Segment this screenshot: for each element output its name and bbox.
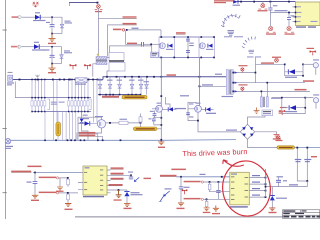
ground: [32, 195, 38, 198]
box loop: [188, 102, 198, 120]
wire: [270, 12, 295, 14]
resistor: [119, 121, 128, 124]
net label red: [176, 32, 186, 34]
testpoint red tap3: [241, 87, 244, 91]
capacitor array columns: [31, 97, 89, 112]
wire: [22, 16, 35, 18]
vcc T symbol: [70, 64, 77, 69]
ground: [178, 203, 184, 206]
T1 tap wires: [233, 72, 255, 74]
wire: [255, 58, 257, 83]
transformer T2: [260, 97, 262, 107]
border tick: [3, 192, 7, 194]
testpoint red tap1: [241, 68, 244, 73]
diode: [169, 107, 173, 111]
wire: [40, 47, 62, 55]
wire: [41, 17, 63, 24]
drive mosfet Q2: [195, 105, 202, 112]
vcc T red top: [310, 51, 316, 56]
testpoint TP3: [285, 27, 294, 33]
vcc T red: [182, 190, 188, 195]
wire: [33, 172, 78, 174]
wire: [107, 71, 109, 77]
red label top: [214, 0, 233, 1]
ground: [213, 206, 219, 212]
SCR1 loop: [159, 37, 174, 57]
spark gap FS1 (red): [95, 5, 103, 10]
capacitor: [154, 111, 156, 114]
bus wire A: [13, 79, 104, 81]
ground: [254, 108, 260, 114]
net label red: [102, 96, 119, 98]
PFC_OUT label: [167, 74, 177, 76]
group B labels: [171, 169, 186, 171]
junction dots SCR rails: [160, 36, 215, 58]
sheet bottom edge: [75, 216, 283, 218]
box filter1: [109, 53, 124, 62]
junction: [51, 16, 53, 18]
capacitor: [269, 2, 271, 8]
highlight pill 1: [122, 95, 147, 99]
bridge rectifier: [240, 116, 277, 148]
IC U10 (yellow, top right): [296, 2, 320, 26]
border tick: [3, 128, 7, 130]
net arrow: [134, 177, 139, 181]
zener ZD1: [60, 24, 64, 27]
wire: [52, 63, 62, 65]
testpoint TP (red circle X): [258, 4, 267, 10]
wire: [107, 57, 110, 59]
component on bus: [76, 78, 88, 83]
output fet 2 right edge: [313, 98, 318, 103]
wire vertical drive1: [160, 119, 162, 140]
ground: [124, 204, 130, 207]
long wire V2 label: [295, 89, 307, 91]
diode loop 2: [272, 98, 305, 114]
ground: [116, 190, 122, 198]
diode at top: [233, 0, 237, 4]
testpoint red: [275, 58, 279, 62]
ground: [158, 140, 164, 145]
wire: [266, 186, 308, 188]
ground: [49, 34, 56, 42]
junction dots bus A: [19, 79, 99, 81]
SCR2 loop: [199, 37, 214, 57]
transformer T1: [226, 70, 228, 95]
diode: [206, 107, 210, 111]
diode D7: [35, 15, 40, 20]
wire: [198, 112, 240, 132]
highlight pill 2: [133, 127, 157, 131]
vertical right of U2: [265, 169, 267, 187]
wire: [260, 91, 262, 96]
wire: [295, 147, 320, 149]
resistor: [139, 117, 142, 122]
wire: [166, 97, 171, 109]
wire: [303, 63, 313, 65]
capacitor: [186, 113, 190, 115]
wire: [128, 29, 162, 31]
array center labels: [51, 102, 58, 103]
bus junction dots per column: [31, 79, 88, 81]
PFC mosfet area: box: [78, 117, 102, 140]
junction: [126, 29, 128, 31]
diode loop 1: [285, 64, 303, 75]
port ACN: [11, 46, 18, 48]
wire: [22, 46, 35, 48]
testpoint TP2: [266, 27, 275, 33]
wire: [98, 17, 122, 19]
diode D5: [81, 112, 83, 119]
wire: [69, 3, 71, 6]
diode D8: [34, 44, 39, 49]
fuse pill (vertical): [56, 122, 61, 136]
IC U2 (yellow, in red circle): [230, 172, 250, 205]
junction cluster right of U1: [111, 174, 132, 176]
vertical SCR1 out: [160, 57, 162, 117]
annotation circle: [220, 158, 274, 219]
output fet right edge: [313, 63, 318, 68]
capacitor C1: [51, 17, 53, 24]
long wire V1: [256, 82, 306, 84]
wire: [176, 176, 230, 178]
junction dots bus B: [106, 76, 200, 78]
connector J1: [8, 75, 13, 81]
ground: [57, 187, 63, 190]
group A labels: [28, 166, 42, 168]
border tick: [3, 29, 7, 31]
array bracket left: [47, 99, 49, 110]
bottom rail: [11, 139, 236, 142]
wire: [52, 33, 62, 35]
IC U1 right row labels: [109, 167, 124, 185]
drive mosfet Q1: [156, 105, 163, 112]
wire drops bus to array: [32, 80, 97, 140]
wire: [160, 30, 162, 37]
wire: [106, 122, 141, 124]
net label PRECHARGE1: [123, 16, 137, 17]
capacitor: [34, 173, 36, 182]
net arrow left: [160, 191, 170, 201]
bus wire B: [103, 77, 227, 80]
chassis ground: [36, 75, 40, 78]
fan arc symbol 2: [242, 37, 255, 48]
net labels on bottom rail: [79, 132, 96, 134]
vertical cap between rows: [217, 182, 219, 190]
wire: [15, 82, 32, 98]
power symbol P1 (red): [32, 2, 38, 8]
array bracket right: [89, 99, 91, 110]
ground: [269, 208, 275, 211]
zener row: [97, 77, 149, 95]
resistor box: [151, 52, 158, 57]
connector X (circle): [5, 139, 10, 144]
ground: [204, 207, 210, 211]
wire: [157, 128, 161, 130]
row A to IC2: [184, 181, 201, 183]
capacitor array rails: [32, 97, 91, 99]
wire to rectifier: [256, 63, 285, 65]
capacitor: [154, 117, 162, 125]
zener: [271, 187, 273, 196]
T2 label box: [262, 110, 273, 116]
wire: [97, 8, 99, 56]
row 2: [39, 177, 57, 179]
fan arc symbol 1: [221, 14, 240, 27]
junction: [51, 46, 53, 48]
capacitor C2: [51, 47, 53, 55]
testpoint red: [277, 136, 280, 139]
capacitor: [278, 178, 280, 187]
mid caps between SCRs: [187, 37, 189, 57]
net label PRECHARGE2: [123, 23, 137, 24]
capacitor: [180, 177, 182, 187]
zener ZD2: [60, 55, 64, 58]
SCR block rails: [159, 36, 214, 38]
vertical SCR2 out: [198, 57, 200, 105]
ground: [49, 64, 56, 72]
RC snubber row: [127, 43, 137, 45]
junction: [97, 2, 99, 4]
capacitor: [288, 13, 290, 17]
IC U1 (yellow, bottom left): [83, 166, 107, 195]
array drop columns: [45, 112, 76, 141]
zener big: [111, 189, 128, 191]
wire: [108, 25, 123, 57]
right bottom loop: [297, 148, 307, 181]
title block: [283, 210, 320, 219]
ground red: [274, 135, 280, 138]
wire feed over boxes: [110, 46, 152, 53]
junction: [288, 12, 290, 14]
row 3: [39, 192, 57, 194]
wire PFC mid: [199, 85, 227, 87]
ground: [65, 204, 71, 207]
bus wire lower (zener rail): [98, 94, 141, 96]
sheet left border: [5, 0, 7, 219]
wire: [140, 114, 142, 130]
IC U2 right pins: [249, 178, 265, 198]
row B to IC2: [184, 198, 201, 200]
connector label (red): [113, 29, 122, 31]
highlight pill 3: [277, 146, 295, 149]
red label right edge: [311, 156, 317, 157]
port ACL: [12, 16, 19, 18]
annotation arrow: [223, 160, 244, 166]
vcc T symbol: [84, 64, 91, 69]
vcc T red: [279, 110, 285, 115]
wire: [306, 181, 308, 187]
junction (yellow fleck): [97, 54, 99, 56]
diode: [85, 121, 90, 125]
wire top AC feed: [69, 2, 98, 4]
wire: [93, 64, 96, 77]
box filter2: [109, 63, 125, 72]
top right feed wire: [237, 1, 296, 3]
transformer L1 common-mode choke: [96, 56, 107, 64]
mosfet Q pfc: [97, 120, 105, 128]
